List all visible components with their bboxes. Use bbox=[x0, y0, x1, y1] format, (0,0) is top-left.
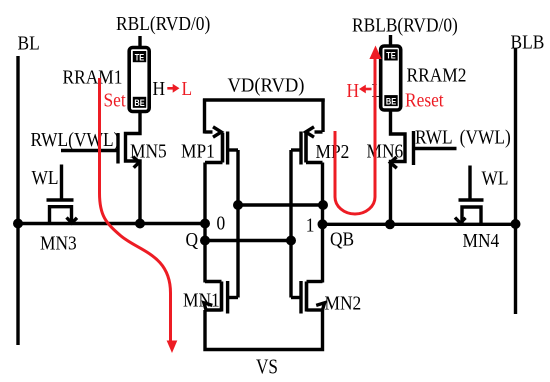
red arrow glyph right bbox=[167, 87, 174, 90]
node dot gate net left on upper coupling wire bbox=[233, 200, 243, 210]
red set current path bbox=[100, 78, 171, 341]
node dot BL/Q junction bbox=[13, 219, 23, 229]
svg-text:MN4: MN4 bbox=[463, 230, 500, 252]
wire Q vertical (MP1 drain to MN1) bbox=[203, 163, 206, 283]
svg-text:VS: VS bbox=[256, 356, 278, 379]
svg-text:RWL(VWL): RWL(VWL) bbox=[31, 129, 120, 151]
node Q lower dot bbox=[200, 236, 210, 246]
wire BL bitline bbox=[16, 56, 19, 345]
wire gate net of MP2/MN2 bbox=[289, 150, 292, 298]
svg-text:1: 1 bbox=[306, 214, 315, 236]
node dot upper coupling to QB vertical bbox=[318, 200, 328, 210]
svg-text:RBLB(RVD/0): RBLB(RVD/0) bbox=[352, 14, 458, 36]
RRAM1 device bbox=[129, 36, 149, 112]
node dot lower coupling to MP2/MN2 gate bbox=[286, 236, 296, 246]
transistor MP1 bbox=[205, 127, 239, 165]
wire gate net of MP1/MN1 bbox=[236, 150, 239, 298]
node dot QB wire to BLB bbox=[511, 219, 521, 229]
wire MP1 source drop bbox=[203, 99, 206, 134]
svg-text:MP1: MP1 bbox=[181, 140, 215, 162]
wire Q horizontal bbox=[17, 222, 207, 225]
node QB dot bbox=[318, 219, 328, 229]
node dot MN6 drain on QB wire bbox=[385, 219, 395, 229]
svg-text:MN2: MN2 bbox=[325, 292, 362, 314]
wire VS rail bbox=[205, 310, 323, 350]
red reset current path bbox=[335, 59, 375, 214]
svg-text:BE: BE bbox=[386, 97, 397, 107]
wire MP2 source drop bbox=[321, 99, 324, 133]
svg-text:WL: WL bbox=[32, 167, 59, 189]
svg-text:Q: Q bbox=[186, 229, 199, 251]
svg-text:RWL (VWL): RWL (VWL) bbox=[415, 126, 511, 148]
svg-text:H: H bbox=[153, 78, 166, 100]
svg-text:Reset: Reset bbox=[405, 89, 444, 111]
transistor MN6 bbox=[390, 111, 456, 224]
svg-text:MN3: MN3 bbox=[40, 232, 77, 254]
svg-text:BE: BE bbox=[134, 98, 145, 108]
svg-text:L: L bbox=[372, 80, 383, 102]
svg-text:Set: Set bbox=[104, 89, 127, 111]
transistor MN1 bbox=[204, 281, 238, 314]
svg-text:WL: WL bbox=[482, 167, 509, 189]
wire BLB bitline bbox=[514, 48, 517, 314]
svg-text:0: 0 bbox=[217, 212, 226, 234]
svg-text:RRAM1: RRAM1 bbox=[63, 66, 123, 88]
red arrow glyph left bbox=[365, 88, 372, 91]
svg-text:RRAM2: RRAM2 bbox=[407, 64, 467, 86]
red set path arrowhead bbox=[167, 341, 178, 354]
svg-text:BL: BL bbox=[18, 32, 40, 54]
node Q upper dot bbox=[200, 219, 210, 229]
transistor MP2 bbox=[291, 127, 323, 165]
transistor MN2 bbox=[291, 281, 325, 314]
wire cross-coupling upper (to QB) bbox=[238, 203, 323, 206]
svg-text:TE: TE bbox=[386, 51, 396, 61]
wire cross-coupling lower (Q to MN2/MP2 gates) bbox=[205, 239, 291, 242]
wire QB vertical (MP2 drain to MN2) bbox=[321, 163, 324, 283]
svg-text:RBL(RVD/0): RBL(RVD/0) bbox=[116, 13, 210, 35]
node dot MN5 drain on Q wire bbox=[135, 219, 145, 229]
svg-text:MP2: MP2 bbox=[316, 141, 350, 163]
RRAM2 device bbox=[381, 35, 401, 110]
svg-text:L: L bbox=[182, 78, 193, 100]
svg-text:VD(RVD): VD(RVD) bbox=[228, 75, 305, 97]
svg-text:MN1: MN1 bbox=[183, 289, 220, 311]
transistor MN3 bbox=[47, 165, 78, 224]
svg-text:TE: TE bbox=[135, 53, 145, 63]
svg-text:QB: QB bbox=[330, 228, 354, 250]
transistor MN5 bbox=[61, 111, 140, 224]
svg-text:MN6: MN6 bbox=[367, 140, 404, 162]
transistor MN4 bbox=[455, 166, 484, 224]
svg-text:H: H bbox=[347, 80, 360, 102]
red reset path arrowhead bbox=[369, 46, 381, 60]
wire QB horizontal bbox=[321, 223, 517, 226]
wire VD rail bbox=[203, 98, 325, 101]
svg-text:MN5: MN5 bbox=[130, 140, 167, 162]
svg-text:BLB: BLB bbox=[511, 31, 545, 53]
